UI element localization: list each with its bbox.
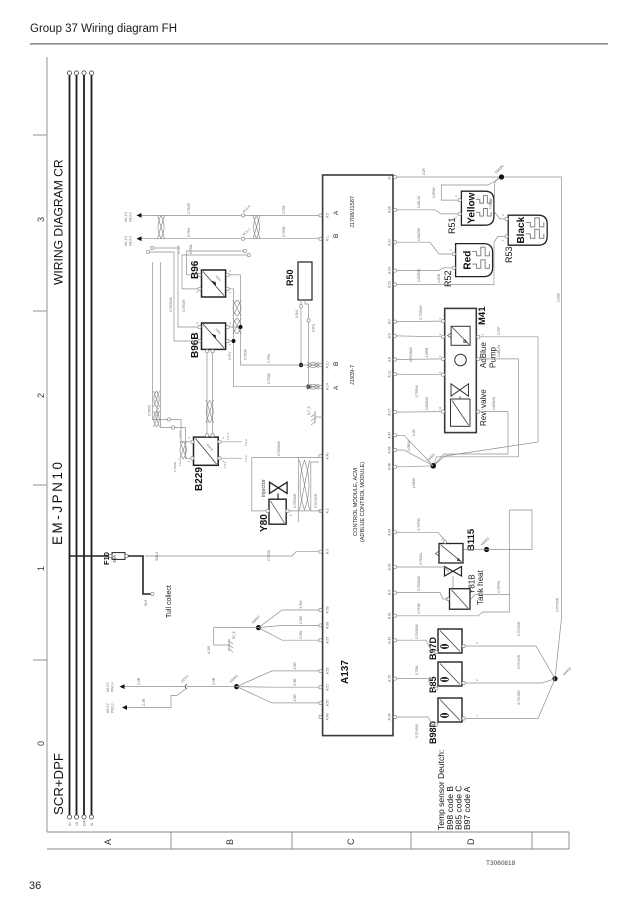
- svg-text:5,7_9: 5,7_9: [307, 406, 311, 415]
- wire X0A61 up to splice: [187, 686, 237, 688]
- pump circle in M41: [455, 354, 467, 366]
- svg-text:Tull collect: Tull collect: [166, 585, 173, 618]
- svg-text:A:44: A:44: [388, 446, 392, 453]
- svg-text:TU-4: TU-4: [226, 433, 230, 440]
- svg-text:KA-1.0: KA-1.0: [124, 236, 128, 246]
- svg-text:A:6: A:6: [388, 333, 392, 338]
- svg-text:0.75GN: 0.75GN: [267, 549, 271, 561]
- pin Y80 1: [266, 509, 269, 512]
- svg-text:0.75KO: 0.75KO: [173, 461, 177, 472]
- svg-text:2.0R: 2.0R: [142, 698, 146, 706]
- pin B96B left b: [211, 350, 214, 353]
- wire A:7 to M41-1: [397, 320, 442, 323]
- svg-text:WIRING DIAGRAM CR: WIRING DIAGRAM CR: [52, 159, 66, 285]
- svg-text:31: 31: [90, 822, 94, 826]
- twist supply runs b: [154, 391, 160, 407]
- module pin A:10: [319, 363, 322, 366]
- frame tick 2: [33, 310, 47, 312]
- connector circles on B229 risers: [167, 418, 170, 421]
- svg-text:1.0W/SB: 1.0W/SB: [417, 228, 421, 241]
- pin heater: [446, 597, 449, 600]
- twist B229 pair: [180, 441, 186, 459]
- wire R53 pin2 up: [494, 236, 505, 284]
- module pin A:34: [393, 715, 396, 718]
- svg-text:0.75SB: 0.75SB: [267, 374, 271, 384]
- wire X0AM6 down: [504, 176, 562, 178]
- pin M41 7 bottom: [477, 357, 480, 360]
- module pin A:5: [319, 214, 322, 217]
- svg-text:2.5R: 2.5R: [137, 677, 141, 685]
- pressure sensor B115 box: [439, 544, 463, 564]
- junction dot J1939 A: [299, 363, 303, 367]
- pin B96 tl: [198, 287, 201, 290]
- module pin A:47: [393, 434, 396, 437]
- svg-text:0.75GN/R: 0.75GN/R: [419, 305, 423, 320]
- wire fan X0A62 to pin x211.8: [259, 628, 320, 641]
- svg-text:J1939-7: J1939-7: [350, 365, 356, 385]
- pin B96B bl: [226, 339, 229, 342]
- svg-text:2.5W: 2.5W: [299, 600, 303, 609]
- NOx sensor B96B box: [202, 323, 226, 349]
- wire M41-7 down: [434, 359, 518, 464]
- svg-text:2: 2: [289, 514, 293, 516]
- svg-text:A:40: A:40: [388, 612, 392, 619]
- svg-text:0.2NL: 0.2NL: [312, 323, 316, 332]
- module pin A:9: [393, 175, 396, 178]
- frame top border line: [46, 57, 48, 832]
- svg-text:A:51: A:51: [325, 684, 329, 691]
- tank heater valve Y81B: [445, 567, 462, 577]
- svg-text:A:5: A:5: [325, 213, 329, 218]
- pin B96 bl: [226, 287, 229, 290]
- svg-text:1.0BL/W: 1.0BL/W: [417, 196, 421, 208]
- svg-text:0.75GN/W: 0.75GN/W: [169, 297, 173, 312]
- svg-text:J1708/J1587: J1708/J1587: [350, 196, 356, 228]
- wire M41-6 down: [435, 337, 538, 465]
- module pin A:52: [319, 669, 322, 672]
- svg-text:M41: M41: [477, 306, 488, 325]
- svg-text:2.5R: 2.5R: [293, 678, 297, 686]
- svg-text:0.75R: 0.75R: [177, 245, 181, 254]
- svg-text:A8-3 C: A8-3 C: [106, 702, 110, 713]
- module pin A:4: [393, 591, 396, 594]
- module pin A:7: [393, 320, 396, 323]
- wire A:20 to R52: [397, 242, 452, 254]
- svg-text:TU-3: TU-3: [244, 439, 248, 446]
- wire pair upper: [297, 458, 299, 522]
- module pin A:44: [393, 448, 396, 451]
- frame left band outer line: [47, 848, 569, 850]
- svg-text:15: 15: [75, 822, 79, 826]
- module pin A:29: [393, 677, 396, 680]
- wire M41-11 down: [435, 412, 508, 465]
- svg-text:(ADBLUE CONTROL MODULE): (ADBLUE CONTROL MODULE): [360, 462, 366, 542]
- svg-text:0.75GN/W: 0.75GN/W: [415, 624, 419, 639]
- temp sensor B98D box: [438, 698, 462, 722]
- pin sensor top x127.5: [435, 723, 438, 726]
- svg-text:0.75P/W: 0.75P/W: [497, 581, 501, 593]
- connector SCA-6: [241, 214, 244, 217]
- wire star to pin x416.7: [397, 435, 433, 466]
- svg-text:1.0SB: 1.0SB: [557, 293, 561, 302]
- svg-text:T3060818: T3060818: [486, 860, 516, 867]
- svg-text:1.0GN: 1.0GN: [437, 273, 441, 283]
- svg-text:B97 code A: B97 code A: [462, 786, 472, 830]
- svg-text:0.75Y/OR: 0.75Y/OR: [556, 597, 560, 612]
- svg-text:A:2: A:2: [325, 508, 329, 513]
- svg-text:1.0BL/W: 1.0BL/W: [497, 345, 501, 357]
- svg-text:B85: B85: [428, 676, 438, 693]
- wire J1939 drop B: [234, 386, 320, 388]
- wire splice branch to arrow PW1.3: [125, 688, 187, 708]
- svg-text:B229: B229: [194, 467, 205, 491]
- wire A:28 to R51: [397, 210, 458, 214]
- pin R53 1: [505, 235, 508, 238]
- svg-text:0.75W: 0.75W: [267, 354, 271, 363]
- svg-text:TU-2: TU-2: [244, 455, 248, 462]
- svg-text:0: 0: [36, 741, 46, 746]
- svg-text:0.75KO: 0.75KO: [148, 405, 152, 416]
- tank heater box: [450, 589, 471, 610]
- frame tick 3: [33, 134, 47, 136]
- pin B229 tl: [191, 457, 194, 460]
- svg-text:1.0GR/W: 1.0GR/W: [417, 269, 421, 282]
- module pin A:40: [319, 454, 322, 457]
- svg-text:0.75Y: 0.75Y: [228, 351, 232, 360]
- wire B115 to X0A63: [464, 549, 487, 551]
- bus wire DIA: [83, 75, 85, 815]
- svg-text:0.75Y/OR: 0.75Y/OR: [517, 654, 521, 669]
- svg-text:0.75SB: 0.75SB: [417, 604, 421, 614]
- wire star to pin x402: [397, 450, 433, 466]
- module pin A:50: [319, 701, 322, 704]
- pressure sensor in M41: [451, 326, 470, 345]
- wire A:26 to Y81B: [397, 567, 449, 572]
- ground 57_6: [228, 639, 230, 651]
- svg-text:A137: A137: [340, 660, 351, 684]
- svg-text:2.5R: 2.5R: [293, 662, 297, 670]
- svg-text:AdBlue: AdBlue: [479, 342, 488, 368]
- svg-text:Tank heat: Tank heat: [476, 570, 485, 605]
- svg-text:0.75R/W: 0.75R/W: [415, 385, 419, 397]
- svg-text:A:42: A:42: [388, 637, 392, 644]
- wire pair lower: [289, 510, 321, 512]
- wire X0A62 to ground: [214, 628, 259, 645]
- svg-text:B: B: [333, 362, 340, 366]
- module pin A:2: [319, 509, 322, 512]
- frame band divider 0: [170, 832, 172, 849]
- svg-text:A:3: A:3: [325, 549, 329, 554]
- offpage arrow KA-1.0 90L6.1: [137, 213, 142, 218]
- temp sensor B97D box: [438, 629, 462, 653]
- svg-text:90L6.1: 90L6.1: [129, 212, 133, 222]
- pin R51 1: [458, 212, 461, 215]
- junction X0AM6: [499, 174, 504, 179]
- wire A:12 to M41-4: [397, 373, 442, 376]
- svg-text:Group 37 Wiring diagram FH: Group 37 Wiring diagram FH: [30, 23, 177, 35]
- svg-text:0.75DGL: 0.75DGL: [419, 552, 423, 565]
- svg-text:1.0R: 1.0R: [422, 168, 426, 175]
- pin R52 2: [452, 252, 455, 255]
- wire fan X0A62 to pin x242: [259, 610, 320, 628]
- wire CAN pair lower: [240, 275, 242, 365]
- svg-text:A:47: A:47: [388, 432, 392, 439]
- svg-text:R51: R51: [447, 217, 457, 234]
- svg-text:F10: F10: [102, 552, 111, 565]
- module pin A:14: [319, 385, 322, 388]
- svg-text:0.75P/W: 0.75P/W: [417, 518, 421, 530]
- module pin A:3: [319, 550, 322, 553]
- temp sensor B85 box: [438, 662, 462, 686]
- svg-text:1.0B/W: 1.0B/W: [407, 441, 411, 451]
- svg-text:A:40: A:40: [325, 452, 329, 459]
- wire F10 to toll connector: [128, 556, 151, 594]
- svg-text:A8-3 C: A8-3 C: [106, 681, 110, 692]
- svg-text:B115: B115: [466, 528, 477, 551]
- junction X0A63: [484, 547, 489, 552]
- svg-text:2.5W: 2.5W: [299, 630, 303, 639]
- wire A:23 down: [397, 284, 494, 286]
- frame band divider 1: [291, 832, 293, 849]
- svg-text:A:12: A:12: [388, 371, 392, 378]
- module pin A:28: [393, 208, 396, 211]
- svg-text:0.75BL: 0.75BL: [156, 406, 160, 416]
- svg-text:D: D: [466, 838, 476, 845]
- svg-text:SO/LS: SO/LS: [155, 552, 159, 561]
- svg-text:0.75W/R: 0.75W/R: [182, 299, 186, 312]
- svg-text:1.0GN/W: 1.0GN/W: [425, 397, 429, 410]
- svg-text:R50: R50: [285, 269, 295, 286]
- svg-text:0.75GN/W: 0.75GN/W: [277, 441, 281, 456]
- wire heater ground: [500, 595, 510, 612]
- junction X0A59: [552, 676, 557, 681]
- connector B96B supply: [146, 250, 149, 253]
- module pin A:58: [319, 624, 322, 627]
- reverting valve box in M41: [451, 399, 471, 426]
- svg-text:A: A: [333, 385, 340, 390]
- wire A:34 to B98D: [397, 717, 435, 725]
- twist Y80 pair: [300, 460, 310, 510]
- wire B96 supply pair: [182, 255, 247, 289]
- svg-text:0.75GN/R: 0.75GN/R: [293, 493, 297, 508]
- svg-text:A:23: A:23: [388, 281, 392, 288]
- svg-text:A:52: A:52: [325, 667, 329, 674]
- module pin A:26: [393, 565, 396, 568]
- svg-text:0.75GR: 0.75GR: [187, 202, 191, 214]
- reverting valve bowtie in M41: [451, 384, 469, 396]
- wire A:24 to R52: [397, 268, 452, 271]
- svg-text:A:1: A:1: [325, 236, 329, 241]
- pin B115 p1: [443, 540, 446, 543]
- svg-text:0.75Y/GR: 0.75Y/GR: [314, 493, 318, 508]
- wire J1939 drop A: [241, 364, 320, 366]
- pin sensor top x200: [435, 650, 438, 653]
- offpage arrow PW1.4: [120, 684, 125, 689]
- module pin A:1: [319, 237, 322, 240]
- frame band divider 2: [410, 832, 412, 849]
- svg-text:A:9: A:9: [388, 174, 392, 179]
- junction X0A65: [430, 463, 436, 469]
- svg-text:A:57: A:57: [325, 637, 329, 644]
- wire B85 to X0A59: [465, 679, 555, 683]
- wire fan X0A61 to pin x181.1: [237, 671, 319, 687]
- svg-text:A:8: A:8: [388, 357, 392, 362]
- svg-text:4.0W: 4.0W: [207, 645, 211, 654]
- svg-text:Red: Red: [462, 251, 473, 270]
- svg-text:DIA: DIA: [82, 820, 86, 826]
- wire fan X0A62 to pin x226.6: [259, 625, 320, 627]
- AdBlue pump M41 box: [445, 308, 477, 432]
- wire splice to arrow PW1.4: [123, 686, 186, 688]
- pin B229 right a: [205, 434, 208, 437]
- wire A:6 to M41-2: [397, 335, 442, 338]
- pin M41 12 top: [441, 410, 444, 413]
- svg-text:B: B: [333, 234, 340, 238]
- pin sensor bottom x169: [462, 681, 465, 684]
- wire B98D to X0A59: [465, 679, 555, 719]
- twist J1939 at pins A: [307, 363, 319, 368]
- junction X0A62: [256, 625, 261, 630]
- twist J1939 at pins B: [307, 384, 319, 389]
- pin M41 4 top: [441, 373, 444, 376]
- page header rule: [30, 43, 608, 45]
- svg-text:0.75BL: 0.75BL: [415, 665, 419, 675]
- svg-text:W.9: W.9: [144, 600, 148, 606]
- pin M41 11 bottom: [477, 410, 480, 413]
- svg-text:3: 3: [36, 217, 46, 222]
- connector B96 supply a: [247, 253, 250, 256]
- svg-text:12: 12: [438, 406, 442, 410]
- svg-text:2.5R: 2.5R: [293, 694, 297, 702]
- svg-text:A:7: A:7: [388, 319, 392, 324]
- pin R53 2: [505, 217, 508, 220]
- wire B96B supply pair: [150, 252, 198, 341]
- svg-text:A:50: A:50: [325, 699, 329, 706]
- resistor R50 box: [298, 262, 312, 300]
- module pin A:49: [319, 715, 322, 718]
- wire R50 upper lead: [300, 308, 302, 365]
- module pin A:54: [393, 531, 396, 534]
- module pin A:12: [393, 373, 396, 376]
- bus wire 31: [91, 75, 93, 815]
- svg-text:A: A: [103, 839, 113, 845]
- connector R53 (Black): [508, 215, 547, 245]
- wire CAN pair upper: [233, 289, 235, 387]
- svg-text:A:54: A:54: [388, 529, 392, 536]
- svg-text:P: P: [464, 339, 470, 343]
- twist J1708 lower: [253, 215, 260, 238]
- wire fan X0A61 to pin x149.1: [237, 687, 319, 703]
- twist supply runs a: [154, 411, 160, 427]
- wire A:17 to M41-12: [397, 411, 442, 414]
- pin B96B br: [226, 325, 229, 328]
- rotated schematic canvas: [33, 57, 572, 849]
- svg-text:A:59: A:59: [325, 606, 329, 613]
- svg-text:0.75GN: 0.75GN: [244, 348, 248, 360]
- wire R51 pin2 loop: [441, 179, 499, 201]
- svg-text:TU-2: TU-2: [178, 459, 182, 466]
- frame tick 0: [33, 659, 47, 661]
- module pin A:40: [393, 614, 396, 617]
- wire B96 bottom pins: [229, 288, 233, 290]
- svg-text:SCR+DPF: SCR+DPF: [51, 753, 66, 815]
- pin B96 br: [226, 273, 229, 276]
- pin B229 right b: [211, 434, 214, 437]
- svg-text:A:29: A:29: [388, 675, 392, 682]
- frame band divider 3: [531, 832, 533, 849]
- svg-text:1.0R/W: 1.0R/W: [489, 198, 493, 209]
- svg-text:1.0R/B: 1.0R/B: [425, 348, 429, 358]
- svg-text:0.75Y/OR: 0.75Y/OR: [517, 690, 521, 705]
- svg-text:Yellow: Yellow: [466, 192, 477, 223]
- offpage arrow PW1.3: [122, 705, 127, 710]
- frame left band inner line: [47, 831, 569, 833]
- module pin A:48: [393, 465, 396, 468]
- wire R50 lower lead: [308, 322, 310, 387]
- pin B229 tr: [191, 440, 194, 443]
- pin B229 bl: [218, 457, 221, 460]
- pin sensor top x163.5: [435, 687, 438, 690]
- control module A137 box: [323, 175, 393, 736]
- svg-text:36: 36: [29, 880, 41, 892]
- pin B229 br: [218, 440, 221, 443]
- connector R51 (Yellow): [461, 191, 494, 225]
- svg-text:0.75Y/W3: 0.75Y/W3: [415, 724, 419, 738]
- module pin A:59: [319, 608, 322, 611]
- pin M41 3 top: [441, 357, 444, 360]
- wire J1708 B: [139, 238, 320, 240]
- wire B229 to B96B b: [212, 353, 214, 434]
- wire B96B bottom pins: [229, 340, 233, 342]
- svg-text:injector: injector: [261, 479, 267, 497]
- svg-text:TU-1: TU-1: [223, 461, 227, 468]
- pin B96 tr: [198, 273, 201, 276]
- junction X0A61: [234, 684, 239, 689]
- module pin A:6: [393, 334, 396, 337]
- svg-text:A:17: A:17: [388, 409, 392, 416]
- offpage arrow KA-1.0 90L6.2: [137, 236, 142, 241]
- connector SCA-7: [241, 237, 244, 240]
- frame tick 1: [33, 484, 47, 486]
- svg-text:1: 1: [263, 514, 267, 516]
- injector Y80 valve: [270, 482, 288, 493]
- wire B97D to X0A59: [465, 646, 555, 679]
- svg-text:A:4: A:4: [388, 590, 392, 595]
- svg-text:11: 11: [481, 407, 485, 410]
- wire A:29 to B85: [397, 679, 435, 689]
- module pin A:42: [393, 639, 396, 642]
- wire bus to F10: [70, 555, 111, 557]
- svg-text:A:20: A:20: [388, 239, 392, 246]
- pin R52 1: [452, 266, 455, 269]
- wire A:54 to B115: [397, 532, 445, 540]
- pin M41 2 top: [441, 335, 444, 338]
- svg-text:A:58: A:58: [325, 622, 329, 629]
- pin M41 6 bottom: [477, 335, 480, 338]
- pin sensor bottom x133.5: [462, 717, 465, 720]
- svg-text:A:24: A:24: [388, 267, 392, 274]
- module pin A:8: [393, 358, 396, 361]
- wire F10 feed down: [145, 552, 319, 556]
- svg-text:30: 30: [68, 822, 72, 826]
- svg-text:R53: R53: [504, 246, 514, 263]
- svg-text:TU-4: TU-4: [178, 431, 182, 438]
- svg-text:1.0R: 1.0R: [412, 429, 416, 436]
- svg-text:A:28: A:28: [388, 206, 392, 213]
- bus wire 15: [76, 75, 78, 815]
- wire pair lower2: [311, 462, 319, 511]
- wire A:4 to heater: [397, 593, 448, 599]
